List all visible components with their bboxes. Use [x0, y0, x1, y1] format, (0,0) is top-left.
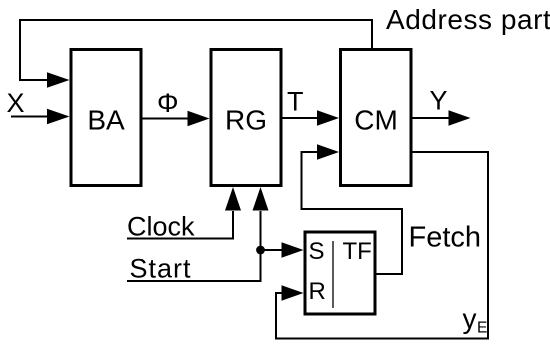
wire X input	[11, 109, 70, 125]
junction dot	[256, 246, 265, 255]
wire S input	[261, 242, 304, 258]
svg-text:Y: Y	[430, 86, 448, 116]
svg-text:Fetch: Fetch	[409, 222, 482, 254]
wire Phi BA to RG	[141, 111, 210, 127]
wire Y output	[411, 110, 471, 126]
divider TF	[332, 241, 334, 308]
svg-text:E: E	[477, 320, 487, 337]
flip-flop TF	[305, 232, 375, 314]
svg-text:Address part: Address part	[386, 4, 550, 35]
svg-text:S: S	[309, 238, 325, 265]
svg-text:Φ: Φ	[157, 88, 179, 118]
svg-text:y: y	[463, 303, 477, 334]
wire Fetch TF to CM	[302, 144, 403, 274]
svg-text:TF: TF	[343, 238, 372, 265]
wire Clock	[127, 187, 241, 239]
wire Start	[127, 187, 269, 281]
svg-text:CM: CM	[354, 105, 398, 136]
svg-text:BA: BA	[87, 105, 125, 136]
block BA	[71, 50, 141, 186]
wire T RG to CM	[281, 110, 339, 126]
svg-text:X: X	[7, 88, 25, 118]
label yE	[463, 303, 488, 337]
svg-text:Start: Start	[130, 254, 192, 284]
svg-text:T: T	[287, 87, 304, 117]
svg-text:Clock: Clock	[127, 212, 195, 242]
wire feedback Address part	[20, 20, 372, 88]
svg-text:R: R	[309, 278, 326, 305]
block RG	[211, 50, 281, 186]
wire yE CM to R	[276, 152, 488, 339]
svg-text:RG: RG	[225, 105, 267, 136]
block CM	[341, 50, 412, 186]
